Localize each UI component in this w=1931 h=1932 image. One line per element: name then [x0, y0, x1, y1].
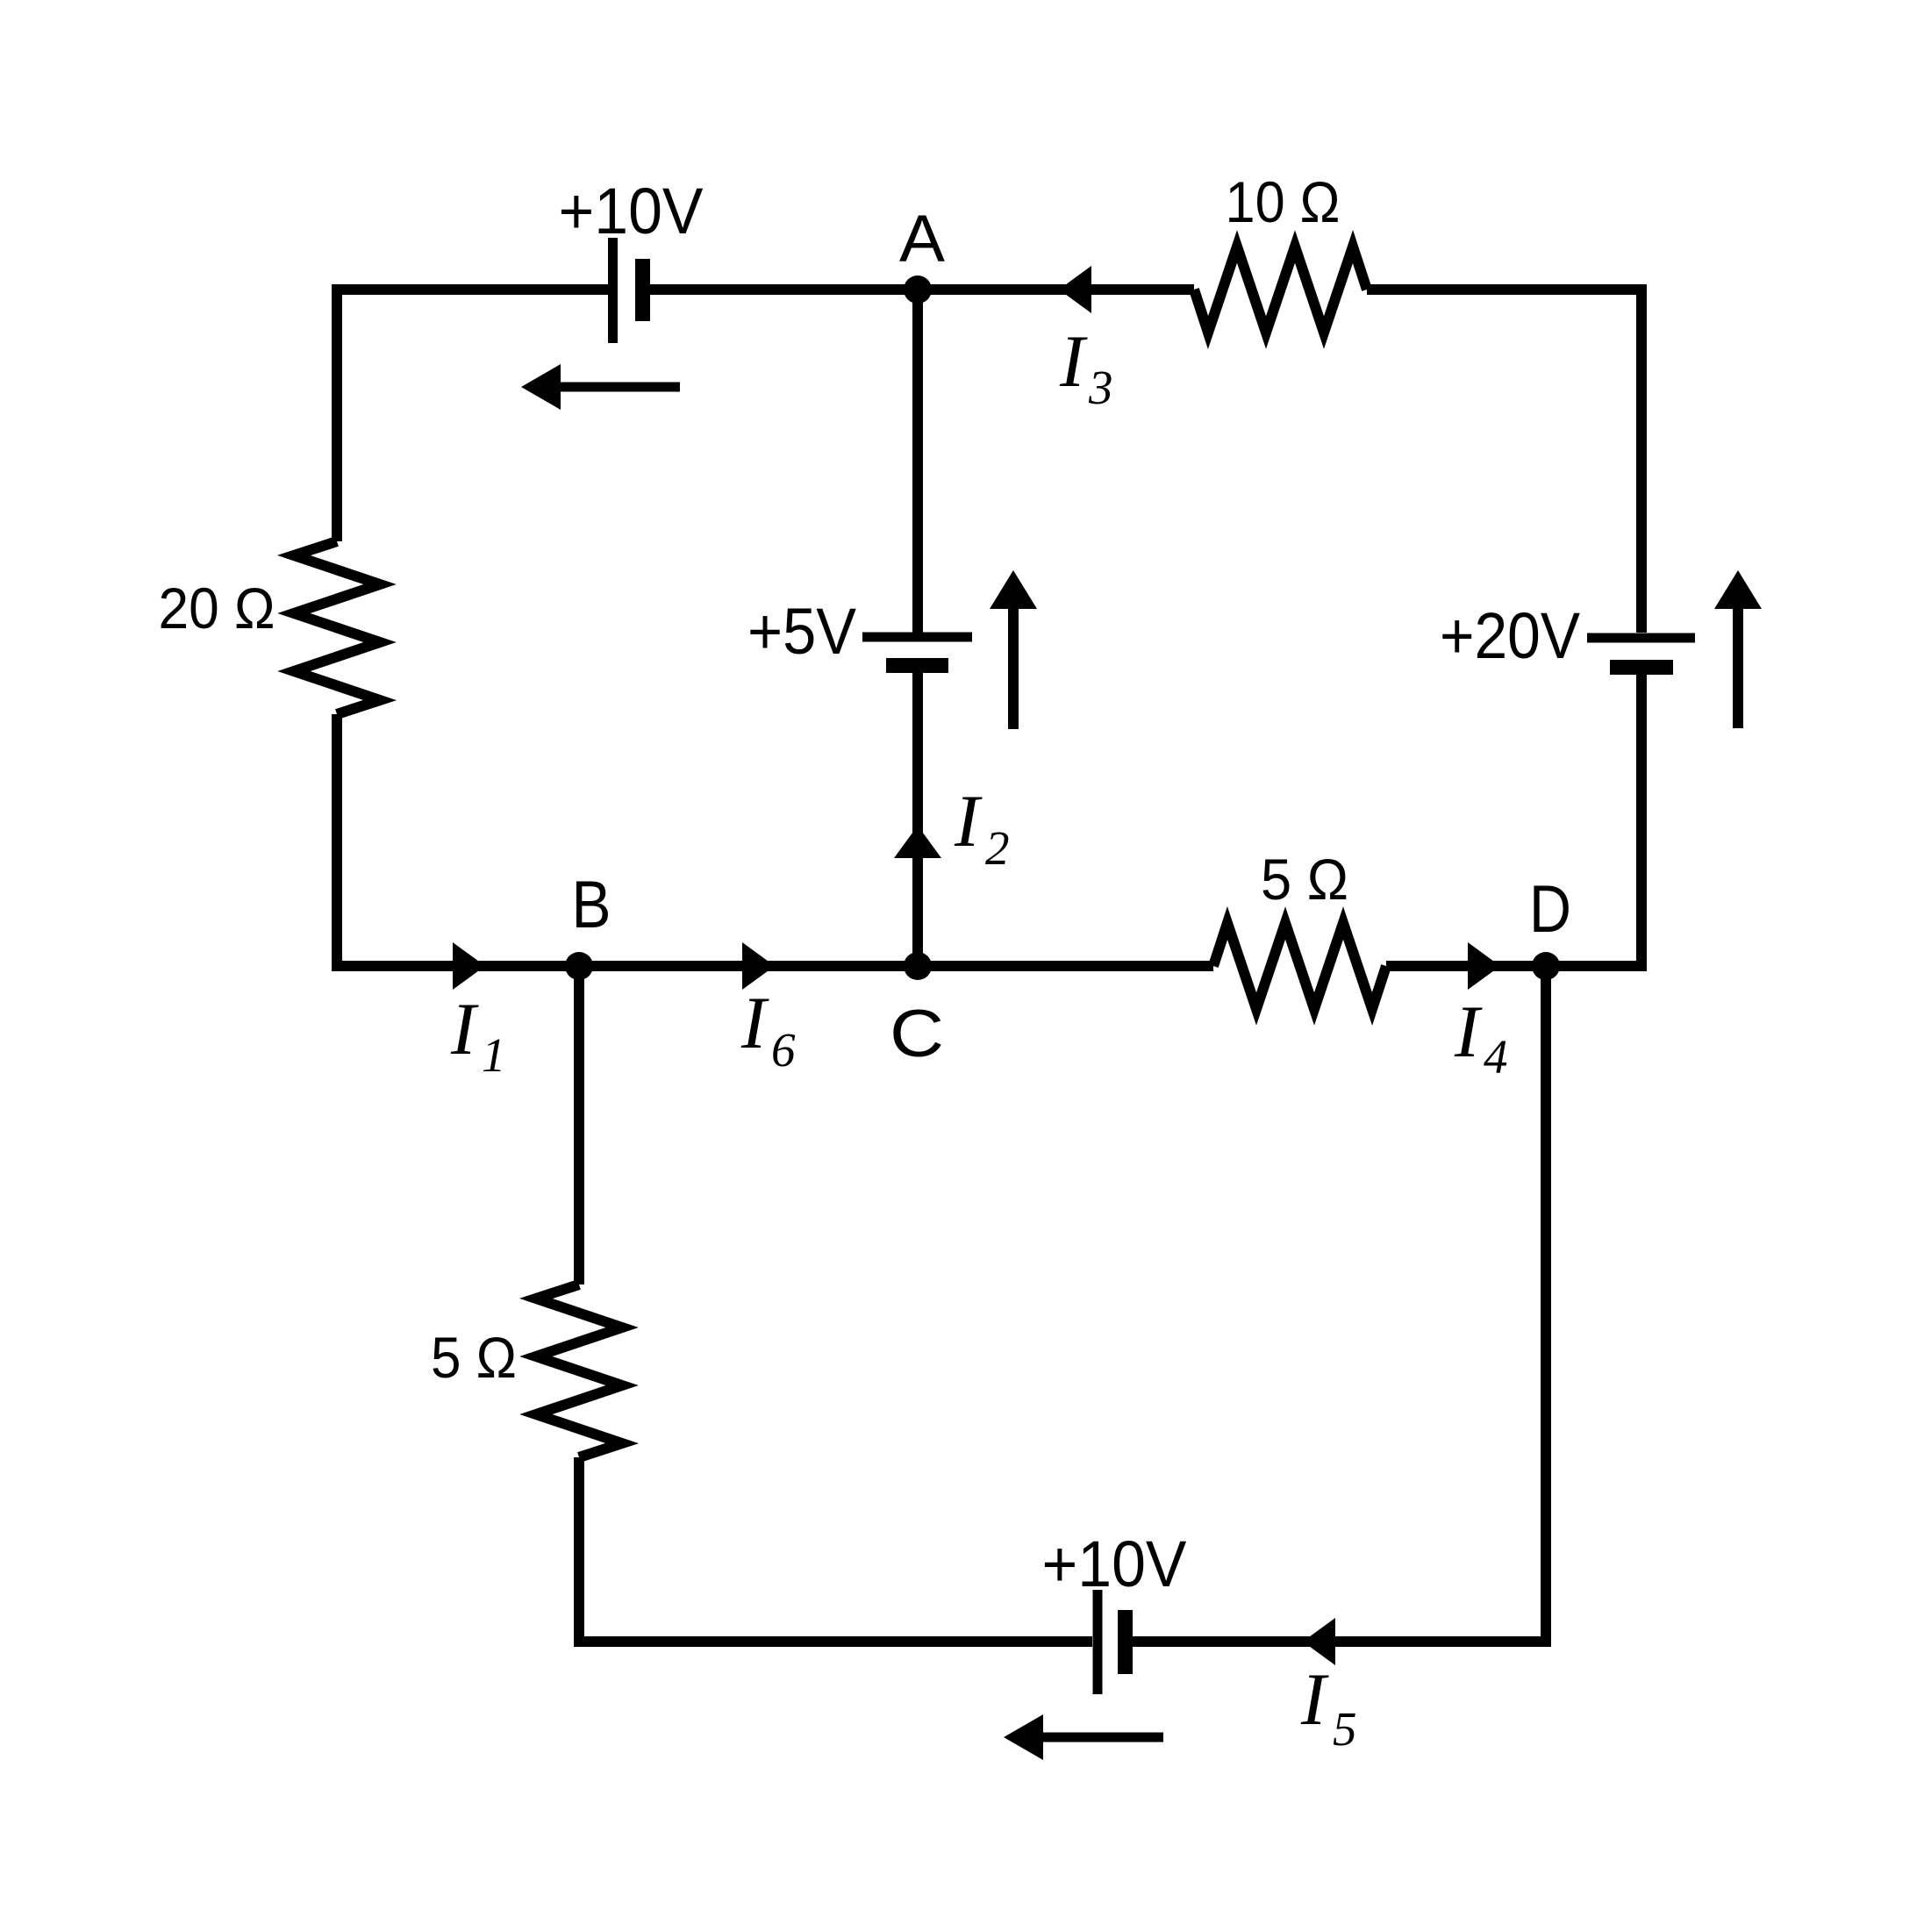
svg-text:+10V: +10V [559, 175, 704, 247]
wire: top-left segment and left vertical upper [337, 290, 608, 541]
svg-text:5: 5 [1333, 1702, 1357, 1756]
svg-text:B: B [572, 868, 611, 942]
arrowhead I2 current direction up [894, 826, 941, 858]
label current I3 [1059, 320, 1113, 414]
battery V2 +5V middle: short plate [886, 658, 948, 673]
arrowhead I1 current direction right [453, 942, 485, 990]
svg-text:4: 4 [1484, 1030, 1508, 1084]
wire: right vertical upper and top wire right of 10ohm [1367, 290, 1641, 633]
arrow: battery V4 current direction left [1004, 1714, 1163, 1760]
svg-text:+5V: +5V [747, 595, 857, 668]
svg-text:D: D [1529, 872, 1571, 947]
label current I2 [954, 780, 1010, 875]
svg-text:I: I [954, 780, 983, 862]
arrow: battery V2 current direction up [990, 570, 1037, 729]
battery V1 +10V top: long plate [608, 238, 618, 343]
resistor 5ohm lower-left vertical [536, 1284, 622, 1457]
label current I6 [740, 982, 796, 1077]
svg-text:5 Ω: 5 Ω [431, 1325, 517, 1390]
arrow: battery V3 current direction up [1714, 570, 1762, 728]
resistor 20ohm left vertical [294, 541, 380, 714]
arrowhead I6 current direction right [742, 942, 775, 990]
svg-text:I: I [1059, 320, 1088, 403]
svg-text:I: I [1300, 1658, 1329, 1741]
wire: middle vertical node A down to +5V battery [912, 290, 923, 633]
wire: node D down to bottom-right corner and bottom wire to battery [1133, 966, 1546, 1642]
label current I4 [1454, 991, 1508, 1084]
node C junction dot [904, 952, 932, 980]
resistor 5ohm middle C-D [1213, 923, 1386, 1009]
node A junction dot [904, 275, 932, 304]
wire: lower-left vertical to bottom-left corner and bottom wire to battery [579, 1457, 1092, 1642]
node B junction dot [565, 952, 593, 980]
svg-text:6: 6 [771, 1023, 796, 1077]
svg-text:20 Ω: 20 Ω [159, 576, 275, 640]
battery V2 +5V middle: long plate [862, 633, 972, 642]
arrowhead I4 current direction right [1468, 942, 1500, 990]
svg-text:10 Ω: 10 Ω [1226, 169, 1341, 234]
battery V4 +10V bottom: long plate [1093, 1590, 1103, 1694]
wire: node B down to 5ohm resistor [574, 966, 584, 1284]
wire: middle wire 5ohm to right corner and right vertical lower [1386, 672, 1641, 966]
wire: top wire battery to 10ohm through node A [650, 284, 1194, 295]
wire: left vertical lower and middle wire B to C [337, 714, 918, 966]
battery V4 +10V bottom: short plate [1118, 1610, 1133, 1674]
svg-text:I: I [1454, 991, 1483, 1073]
battery V1 +10V top: short plate [635, 259, 650, 321]
arrow: battery V1 current direction left [521, 364, 680, 410]
label current I1 [450, 988, 506, 1082]
resistor 10ohm top [1194, 247, 1367, 333]
svg-text:I: I [450, 988, 479, 1070]
battery V3 +20V right: long plate [1587, 633, 1695, 643]
label current I5 [1300, 1658, 1357, 1756]
svg-text:I: I [740, 982, 769, 1064]
svg-text:+10V: +10V [1042, 1528, 1188, 1600]
svg-text:C: C [890, 997, 944, 1071]
arrowhead I3 current direction left [1059, 266, 1091, 313]
wire: middle vertical +5V battery down to node C [912, 673, 923, 966]
node D junction dot [1532, 952, 1560, 980]
battery V3 +20V right: short plate [1610, 660, 1673, 675]
svg-text:A: A [899, 202, 945, 276]
svg-text:+20V: +20V [1440, 599, 1581, 672]
svg-text:1: 1 [482, 1028, 506, 1082]
wire: middle wire C to 5ohm resistor [918, 961, 1213, 971]
svg-text:3: 3 [1088, 361, 1113, 414]
svg-text:5 Ω: 5 Ω [1261, 847, 1348, 912]
arrowhead I5 current direction left [1303, 1618, 1335, 1665]
svg-text:2: 2 [985, 821, 1010, 875]
